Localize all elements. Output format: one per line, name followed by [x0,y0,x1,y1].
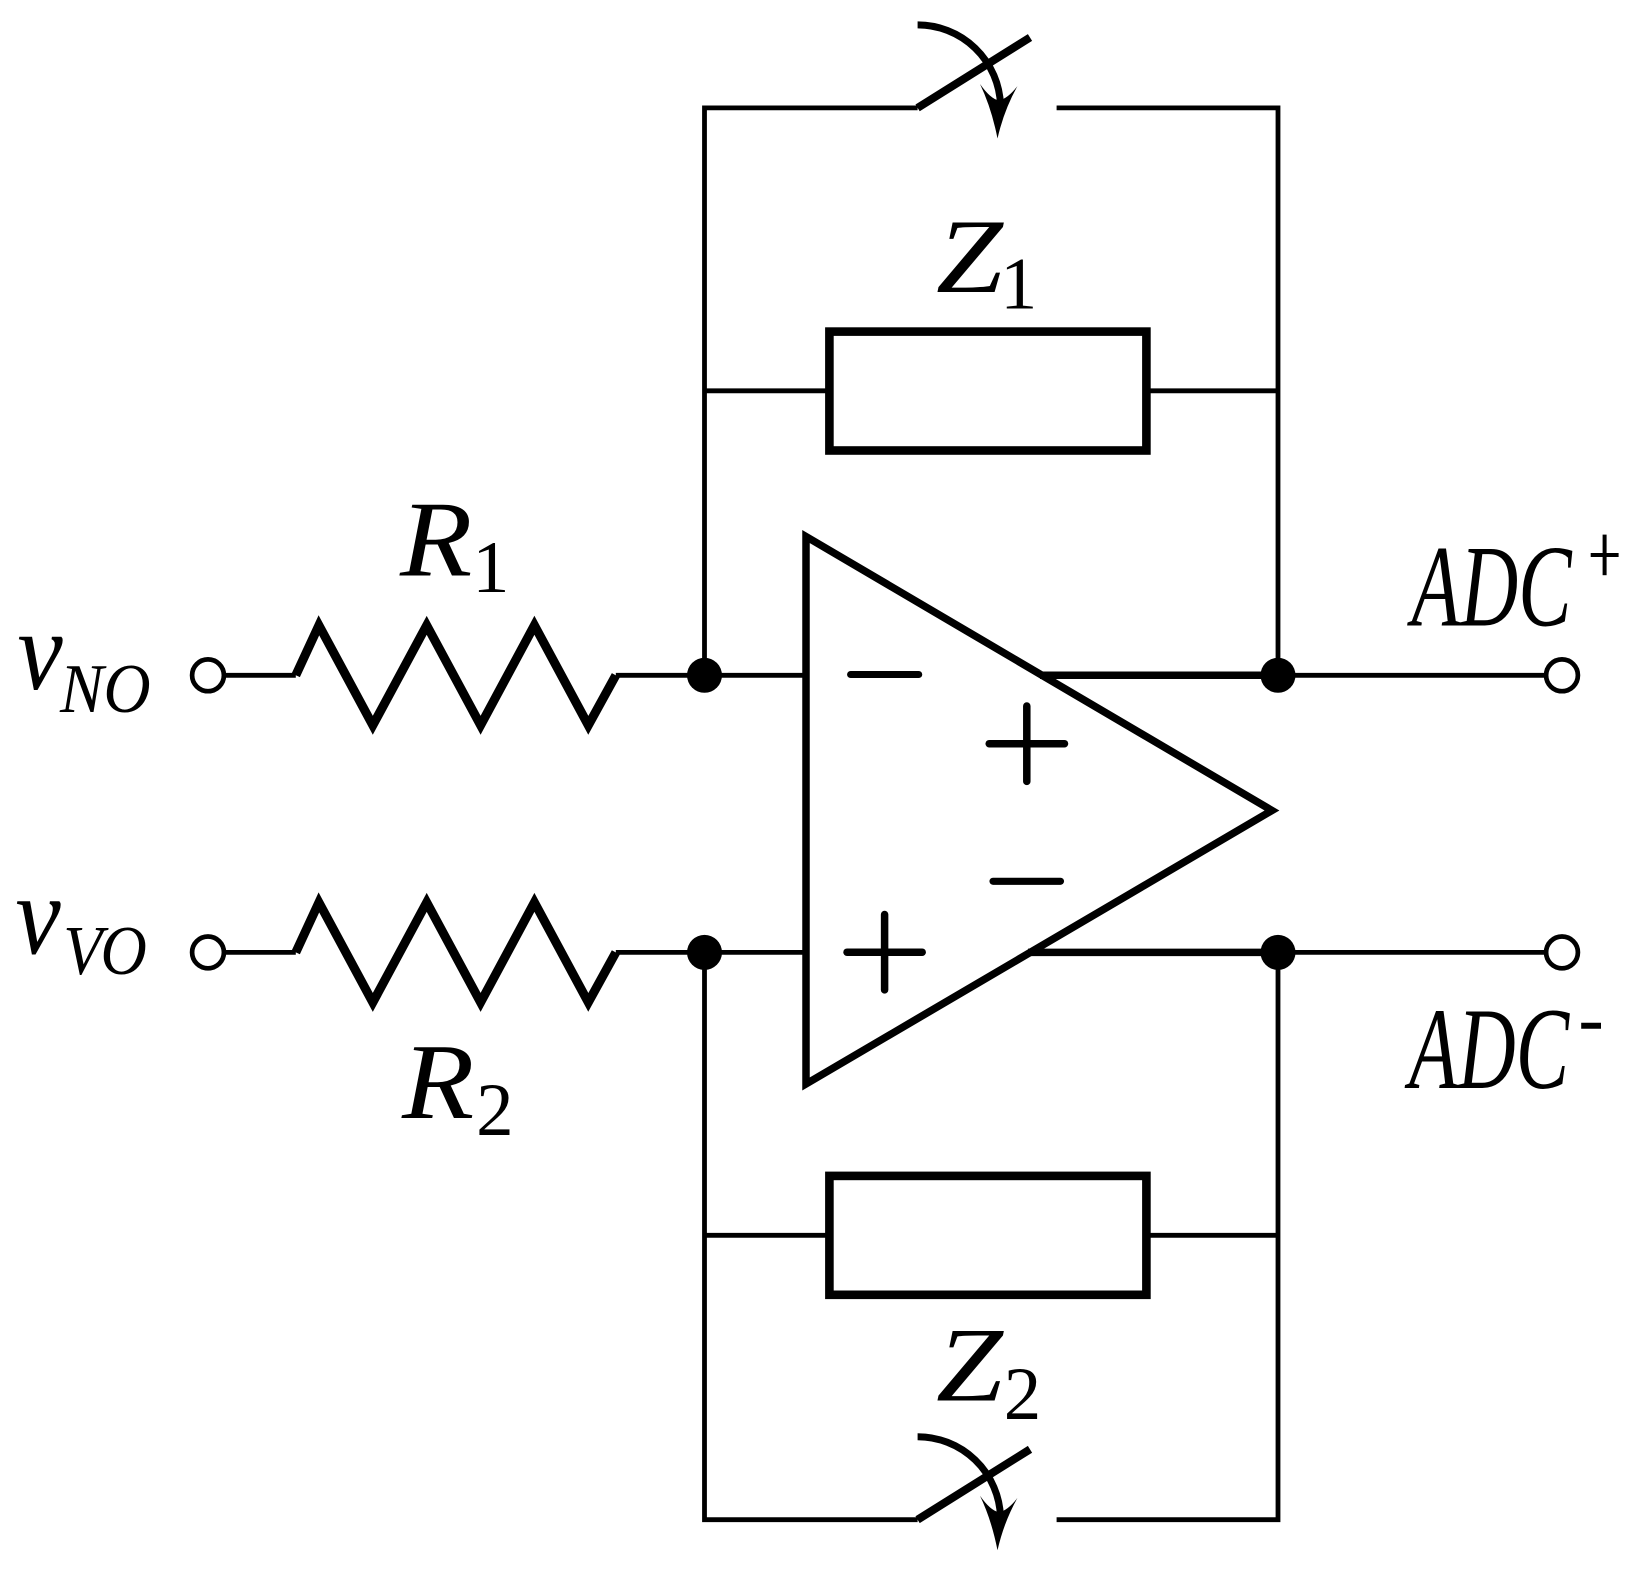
resistor R1 [296,625,616,725]
impedance Z1 box [829,332,1146,451]
label ADC+ [1407,522,1619,651]
label vNO [18,589,151,727]
op-amp U1 inverting input sign (minus) [851,671,919,678]
resistor R2 [296,902,616,1002]
svg-text:VO: VO [63,911,147,989]
label R2 [401,1023,514,1152]
svg-text:1: 1 [472,527,509,609]
label ADC- [1404,984,1601,1113]
output terminal ADC- [1546,937,1578,969]
wire vNO terminal to R1 [224,673,296,678]
op-amp U1 noninverting output sign (plus) [989,706,1064,781]
node B (noninverting input junction) [687,935,722,970]
svg-text:1: 1 [1000,243,1037,325]
label Z1 [936,197,1037,325]
svg-text:NO: NO [59,650,151,728]
wire Z2 left stub [705,1233,831,1238]
svg-text:Z: Z [936,1306,1005,1424]
impedance Z2 box [829,1176,1146,1295]
svg-text:v: v [18,589,63,714]
label R1 [399,480,509,609]
wire output node to ADC- terminal [1278,950,1546,955]
op-amp U1 output lead ADC- side [1028,949,1278,957]
wire bottom feedback right [1057,952,1278,1519]
wire top feedback left (node A up and across) [705,108,918,675]
svg-text:R: R [399,480,472,599]
output terminal ADC+ [1546,659,1578,691]
op-amp U1 noninverting input sign (plus) [847,915,922,990]
node A (inverting input junction) [687,658,722,693]
wire vVO terminal to R2 [224,950,296,955]
svg-text:Z: Z [936,197,1005,315]
wire output node to ADC+ terminal [1278,673,1546,678]
op-amp U1 (fully differential) [806,537,1272,1085]
svg-text:v: v [16,854,61,979]
switch S2 actuation arc arrow [918,1437,1018,1551]
node D (ADC- output junction) [1261,935,1296,970]
switch S1 lever (chopper, top) [918,38,1030,108]
node C (ADC+ output junction) [1261,658,1296,693]
wire Z1 left stub [705,388,831,393]
svg-text:2: 2 [476,1069,513,1152]
wire R2 to noninverting input node [616,950,806,955]
op-amp U1 output lead ADC+ side [1040,672,1278,680]
wire Z1 right stub [1146,388,1278,393]
label Z2 [936,1306,1041,1436]
switch S2 lever (chopper, bottom) [918,1449,1030,1519]
input terminal vNO [192,659,224,691]
wire R1 to inverting input node [616,673,806,678]
wire bottom feedback left [705,952,918,1519]
wire Z2 right stub [1146,1233,1278,1238]
switch S1 actuation arc arrow [918,25,1018,139]
input terminal vVO [192,937,224,969]
svg-text:R: R [401,1023,474,1142]
wire top feedback right (output node up and across) [1057,108,1278,675]
svg-text:ADC: ADC [1407,522,1573,651]
label vVO [16,854,147,990]
svg-text:2: 2 [1004,1353,1042,1436]
op-amp U1 inverting output sign (minus) [993,878,1061,885]
svg-text:ADC: ADC [1404,984,1570,1113]
